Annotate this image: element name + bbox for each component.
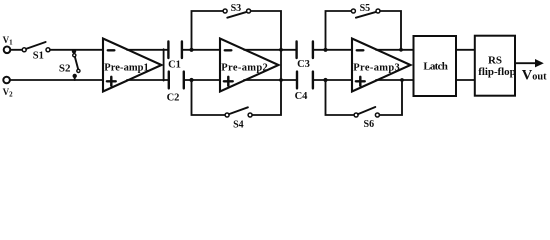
wire output bus of Pre-amp1 <box>163 49 165 80</box>
wire Pre-amp1 output bottom branch <box>127 79 168 81</box>
switch S5 <box>351 3 380 18</box>
svg-text:C1: C1 <box>168 59 181 70</box>
svg-text:Pre-amp3: Pre-amp3 <box>353 62 400 73</box>
RS flip-flop block <box>475 36 516 96</box>
wire output bus of Pre-amp2 <box>280 49 282 81</box>
node junction bus top <box>279 48 283 52</box>
switch S4 <box>225 107 252 130</box>
node junction S4 tap bottom <box>189 78 193 82</box>
latch block <box>414 36 457 96</box>
wire Pre-amp3 output top branch to latch <box>376 49 414 51</box>
wire S5 right side to output node <box>380 11 401 50</box>
wire C3 to Pre-amp3 inverting input <box>314 49 352 51</box>
wire S4 right side to output bus <box>252 81 281 115</box>
node junction S3 tap top <box>189 48 193 52</box>
wire latch to RS flip-flop bottom <box>456 79 475 81</box>
node junction bus bottom <box>279 78 283 82</box>
wire S6 left riser <box>326 80 355 115</box>
wire S4 left riser <box>192 80 226 115</box>
capacitor C3 <box>297 42 313 71</box>
capacitor C1 <box>168 42 182 71</box>
switch S3 <box>223 3 251 18</box>
svg-text:S5: S5 <box>360 3 371 14</box>
svg-text:flip-flop: flip-flop <box>478 66 516 78</box>
input terminal V2 <box>3 77 14 99</box>
svg-text:RS: RS <box>488 55 502 67</box>
switch S2 <box>59 49 80 80</box>
node junction S6 tap bottom <box>323 78 327 82</box>
svg-text:C3: C3 <box>297 59 310 70</box>
capacitor C2 <box>167 72 184 104</box>
wire S1 to Pre-amp1 inverting input <box>50 49 103 51</box>
svg-text:C4: C4 <box>295 91 309 102</box>
svg-text:S4: S4 <box>233 119 244 130</box>
wire latch to RS flip-flop top <box>456 49 475 51</box>
switch S6 <box>354 107 379 130</box>
wire V1 to S1 <box>11 49 22 51</box>
svg-text:S6: S6 <box>364 119 375 130</box>
wire C1 to Pre-amp2 inverting input <box>183 49 220 51</box>
wire S3 left riser <box>192 11 224 50</box>
wire Pre-amp2 output bottom branch <box>244 79 296 81</box>
op-amp Pre-amp2 <box>220 39 279 92</box>
wire Pre-amp1 output top branch <box>127 49 168 51</box>
svg-text:S2: S2 <box>59 62 71 74</box>
svg-text:C2: C2 <box>167 92 180 103</box>
switch S1 <box>22 42 50 61</box>
capacitor C4 <box>295 72 313 103</box>
wire C2 to Pre-amp2 non-inverting input <box>185 79 220 81</box>
input terminal V1 <box>3 35 14 53</box>
op-amp Pre-amp1 <box>103 39 162 92</box>
wire Pre-amp2 output top branch <box>244 49 296 51</box>
wire S3 right side to output bus <box>251 11 281 49</box>
svg-text:Pre-amp2: Pre-amp2 <box>221 62 267 73</box>
node junction S5 output tap <box>399 48 403 52</box>
node junction S6 output tap <box>400 78 404 82</box>
wire C4 to Pre-amp3 non-inverting input <box>314 79 352 81</box>
svg-text:Latch: Latch <box>423 61 448 73</box>
wire Pre-amp3 output bottom branch to latch <box>376 79 414 81</box>
node junction S5 tap top <box>323 48 327 52</box>
wire V2 to Pre-amp1 non-inverting input <box>10 79 103 81</box>
svg-text:S1: S1 <box>33 50 44 61</box>
op-amp Pre-amp3 <box>352 39 411 92</box>
wire S6 right side to output node <box>380 80 403 115</box>
output arrow Vout <box>515 59 547 84</box>
wire S5 left riser <box>326 11 352 50</box>
svg-text:Pre-amp1: Pre-amp1 <box>104 62 149 73</box>
svg-text:S3: S3 <box>231 3 242 14</box>
